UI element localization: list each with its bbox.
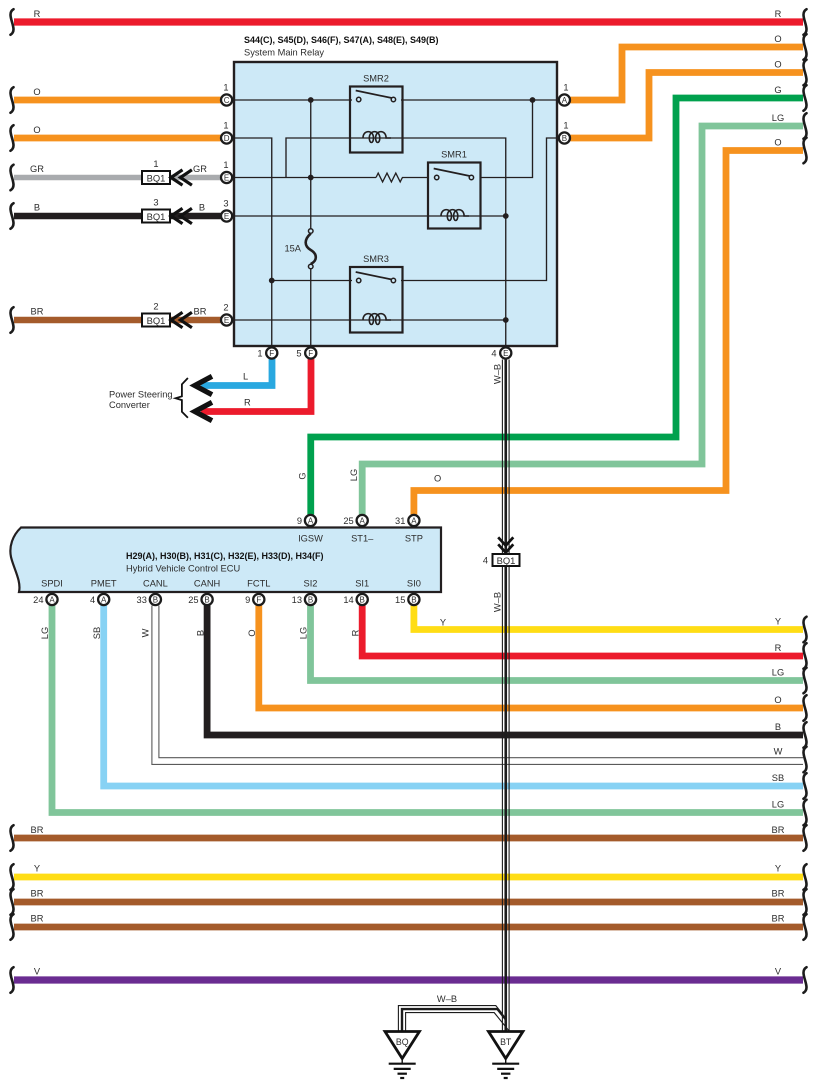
svg-text:F: F [256, 595, 261, 604]
svg-text:V: V [775, 967, 782, 977]
wire pin E3 row SMR1 coil row [234, 215, 506, 217]
svg-text:1: 1 [563, 121, 568, 131]
svg-text:BT: BT [500, 1037, 512, 1047]
svg-text:SMR3: SMR3 [363, 254, 389, 264]
svg-text:B: B [562, 134, 567, 143]
svg-text:Y: Y [440, 618, 446, 628]
relay pin C [221, 83, 232, 106]
svg-text:R: R [775, 643, 782, 653]
svg-text:GR: GR [193, 164, 207, 174]
svg-text:Hybrid Vehicle Control ECU: Hybrid Vehicle Control ECU [126, 564, 240, 574]
svg-text:O: O [33, 87, 40, 97]
wire pin E1 row to resistor [234, 177, 376, 179]
ECU pin CANH 25B [188, 594, 212, 605]
svg-text:A: A [411, 516, 417, 525]
wire G from ECU IGSW to right edge [311, 98, 803, 515]
wire SB from ECU PMET to right edge [104, 606, 803, 787]
svg-text:BQ1: BQ1 [147, 173, 166, 184]
svg-text:15A: 15A [284, 244, 301, 254]
relay pin E3 [221, 199, 232, 222]
svg-text:CANL: CANL [143, 579, 168, 589]
svg-text:BR: BR [772, 914, 785, 924]
svg-text:LG: LG [299, 627, 309, 639]
connector BQ1 on GR wire [142, 159, 192, 185]
svg-text:BQ1: BQ1 [147, 315, 166, 326]
wire fuse bottom to pin F5 [310, 269, 312, 346]
svg-text:33: 33 [137, 595, 147, 605]
relay pin D [221, 121, 232, 144]
wire O from ECU STP to right edge [414, 151, 803, 515]
node junction D vertical at SMR3 switch row [269, 278, 275, 284]
svg-text:B: B [775, 722, 781, 732]
svg-text:CANH: CANH [194, 579, 220, 589]
svg-text:24: 24 [33, 595, 43, 605]
svg-text:A: A [562, 96, 568, 105]
ground BT [489, 1032, 523, 1079]
ECU pin SPDI 24A [33, 594, 57, 605]
wire LG from ECU SPDI to right edge [52, 606, 803, 813]
svg-text:9: 9 [245, 595, 250, 605]
svg-text:A: A [360, 516, 366, 525]
wire R from pin F5 to Power Steering Converter [201, 359, 311, 412]
svg-text:G: G [774, 85, 781, 95]
wire V full width [14, 976, 803, 983]
relay pin F1 [257, 347, 277, 358]
svg-text:LG: LG [772, 668, 784, 678]
wire GR to relay pin E1 via BQ1 [14, 175, 221, 181]
svg-text:B: B [195, 630, 205, 636]
wire O from ECU FCTL to right edge [259, 606, 803, 709]
svg-text:B: B [34, 203, 40, 213]
svg-text:W–B: W–B [493, 364, 503, 384]
wire BR full width third [14, 924, 803, 931]
wire W from ECU CANL to right edge (double line) [152, 606, 803, 765]
svg-text:F: F [308, 349, 313, 358]
ECU pin CANL 33B [137, 594, 161, 605]
relay pin E2 [221, 303, 232, 326]
svg-text:SMR2: SMR2 [363, 74, 389, 84]
svg-text:GR: GR [30, 164, 44, 174]
svg-text:R: R [350, 629, 360, 636]
svg-text:13: 13 [292, 595, 302, 605]
svg-text:O: O [774, 138, 781, 148]
svg-text:SPDI: SPDI [41, 579, 63, 589]
wire colour labels mid (GR/B/BR near relay pins, Y near SI0) [193, 164, 446, 628]
svg-text:L: L [243, 372, 248, 382]
svg-text:C: C [224, 96, 230, 105]
wire BR to relay pin E2 via BQ1 [14, 317, 221, 324]
svg-text:B: B [360, 595, 365, 604]
svg-text:O: O [247, 629, 257, 636]
svg-text:1: 1 [223, 121, 228, 131]
svg-text:B: B [199, 203, 205, 213]
connector BQ1 on B wire [142, 198, 192, 224]
svg-text:BR: BR [31, 825, 44, 835]
ECU pin STP 31A [395, 515, 419, 526]
wire W-B from relay pin E4 down to BT ground (triple line) [502, 360, 509, 1032]
wire B from ECU CANH to right edge [207, 606, 803, 736]
ECU bottom pin names [41, 579, 421, 589]
svg-text:W–B: W–B [437, 994, 457, 1004]
svg-text:LG: LG [349, 469, 359, 481]
svg-text:SI1: SI1 [355, 579, 369, 589]
wire pin B to SMR3 switch [401, 138, 557, 281]
wire BR full width [14, 835, 803, 842]
svg-text:LG: LG [772, 800, 784, 810]
svg-text:SMR1: SMR1 [441, 150, 467, 160]
svg-text:System Main Relay: System Main Relay [244, 48, 324, 58]
svg-text:V: V [34, 967, 41, 977]
rotated wire labels [40, 364, 502, 639]
Power Steering Converter arrows and brace [109, 372, 251, 421]
svg-text:3: 3 [153, 198, 158, 208]
wire L from pin F1 to Power Steering Converter [201, 359, 272, 386]
connector BQ1 on BR wire [142, 302, 192, 328]
svg-text:2: 2 [223, 303, 228, 313]
svg-text:1: 1 [223, 160, 228, 170]
svg-text:F: F [269, 349, 274, 358]
svg-text:14: 14 [343, 595, 353, 605]
svg-text:B: B [308, 595, 313, 604]
wire B to relay pin E3 via BQ1 [14, 213, 221, 220]
ground BQ [385, 1032, 419, 1079]
svg-text:BR: BR [31, 889, 44, 899]
svg-text:SI2: SI2 [304, 579, 318, 589]
wire SMR2 switch out to pin A [401, 99, 557, 101]
svg-text:B: B [204, 595, 209, 604]
svg-text:B: B [411, 595, 416, 604]
svg-text:O: O [774, 34, 781, 44]
wire SMR1 switch out up to A row [480, 100, 533, 178]
connector BQ1 on W-B wire (mid) [483, 537, 520, 566]
svg-text:O: O [33, 125, 40, 135]
wire Y full width [14, 874, 803, 881]
svg-text:1: 1 [153, 159, 158, 169]
svg-text:SI0: SI0 [407, 579, 421, 589]
relay block System Main Relay S44-S49 [234, 62, 557, 346]
ECU pin PMET 4A [90, 594, 109, 605]
wire R from ECU SI1 to right edge [362, 606, 803, 657]
relay pin B [559, 121, 570, 144]
svg-text:3: 3 [223, 199, 228, 209]
svg-text:ST1–: ST1– [351, 534, 374, 544]
svg-text:IGSW: IGSW [298, 534, 323, 544]
svg-text:W–B: W–B [493, 592, 503, 612]
wire colour labels right edge [772, 9, 785, 977]
ECU pin SI0 15B [395, 594, 419, 605]
svg-text:SB: SB [92, 627, 102, 639]
relay SMR1 [428, 150, 481, 229]
node junction E1 row fuse tap [308, 175, 314, 181]
relay SMR2 [350, 74, 403, 153]
svg-text:E: E [224, 212, 229, 221]
svg-text:25: 25 [343, 516, 353, 526]
svg-text:31: 31 [395, 516, 405, 526]
svg-text:1: 1 [257, 349, 262, 359]
relay pin A [559, 83, 570, 106]
svg-text:BQ1: BQ1 [497, 555, 516, 566]
wire O to relay pin D [14, 135, 221, 142]
fuse 15A [284, 229, 315, 269]
svg-text:LG: LG [40, 627, 50, 639]
svg-text:R: R [244, 398, 251, 408]
svg-text:O: O [434, 474, 441, 484]
wire pin D to SMR3 vertical [234, 138, 272, 346]
svg-text:FCTL: FCTL [247, 579, 270, 589]
wire LG from ECU SI2 to right edge [311, 606, 804, 681]
svg-text:25: 25 [188, 595, 198, 605]
svg-text:A: A [308, 516, 314, 525]
wire O to relay pin C [14, 97, 221, 104]
svg-text:STP: STP [405, 534, 423, 544]
svg-text:LG: LG [772, 113, 784, 123]
svg-text:1: 1 [223, 83, 228, 93]
svg-text:R: R [775, 9, 782, 19]
svg-text:15: 15 [395, 595, 405, 605]
svg-text:O: O [774, 695, 781, 705]
wire resistor to SMR1 [402, 177, 429, 179]
edge break marks right [804, 9, 807, 993]
ECU pin FCTL 9F [245, 594, 264, 605]
ECU pin IGSW 9A [297, 515, 316, 526]
wire SMR3 switch row left [272, 280, 352, 282]
wire LG from ECU ST1- to right edge [362, 126, 803, 515]
node junction C row [308, 97, 314, 103]
svg-text:1: 1 [563, 83, 568, 93]
svg-text:PMET: PMET [91, 579, 117, 589]
svg-text:Converter: Converter [109, 400, 150, 410]
svg-text:BR: BR [194, 307, 207, 317]
svg-text:E: E [224, 173, 229, 182]
wire BR full width second [14, 899, 803, 906]
svg-text:G: G [297, 472, 307, 479]
svg-text:O: O [774, 60, 781, 70]
ECU block Hybrid Vehicle Control ECU H29-H34 [10, 528, 441, 593]
svg-text:Y: Y [34, 864, 40, 874]
wire SMR2 coil row [286, 138, 506, 346]
svg-text:E: E [224, 316, 229, 325]
relay SMR3 [350, 254, 403, 333]
svg-text:Y: Y [775, 617, 781, 627]
node junction coil common at E2 row [503, 317, 509, 323]
wire fuse vertical from C row [310, 100, 312, 229]
wire O from relay pin A to right edge [571, 47, 804, 100]
svg-text:5: 5 [296, 349, 301, 359]
svg-text:D: D [224, 134, 230, 143]
svg-text:Y: Y [775, 864, 781, 874]
svg-text:9: 9 [297, 516, 302, 526]
svg-text:BQ1: BQ1 [147, 211, 166, 222]
svg-text:B: B [153, 595, 158, 604]
svg-text:4: 4 [483, 556, 488, 566]
ECU pin SI1 14B [343, 594, 367, 605]
ECU title [126, 551, 324, 574]
svg-text:E: E [503, 349, 508, 358]
svg-text:A: A [101, 595, 107, 604]
svg-text:A: A [49, 595, 55, 604]
wire colour labels left edge [30, 9, 44, 977]
relay title [244, 35, 439, 58]
svg-text:H29(A), H30(B), H31(C), H32(E): H29(A), H30(B), H31(C), H32(E), H33(D), … [126, 551, 324, 561]
svg-text:BQ: BQ [396, 1037, 409, 1047]
relay pin F5 [296, 347, 316, 358]
wire Y from ECU SI0 to right edge [414, 606, 803, 630]
wire W-B link from BQ ground to main W-B run [398, 1006, 509, 1032]
svg-text:W: W [774, 747, 783, 757]
wire O from relay pin B to right edge [571, 73, 804, 139]
edge break marks left [11, 9, 14, 993]
svg-text:BR: BR [31, 307, 44, 317]
relay pin E1 [221, 160, 232, 183]
svg-text:SB: SB [772, 773, 784, 783]
wire pin C row [234, 99, 352, 101]
svg-text:BR: BR [772, 825, 785, 835]
svg-text:2: 2 [153, 302, 158, 312]
svg-text:BR: BR [31, 914, 44, 924]
ECU pin SI2 13B [292, 594, 316, 605]
ECU top pin names [298, 534, 423, 544]
ECU pin ST1- 25A [343, 515, 367, 526]
svg-text:4: 4 [491, 349, 496, 359]
svg-text:R: R [34, 9, 41, 19]
node junction A row [530, 97, 536, 103]
svg-text:S44(C), S45(D), S46(F), S47(A): S44(C), S45(D), S46(F), S47(A), S48(E), … [244, 35, 439, 45]
svg-text:4: 4 [90, 595, 95, 605]
svg-text:W: W [141, 628, 151, 637]
resistor R (precharge) [376, 173, 402, 182]
wire R top full width [14, 18, 803, 25]
svg-text:Power Steering: Power Steering [109, 390, 173, 400]
svg-text:BR: BR [772, 889, 785, 899]
node junction coil common at SMR1 coil row [503, 213, 509, 219]
relay pin E4 [491, 347, 511, 358]
wire pin E2 row SMR3 coil row [234, 319, 506, 321]
